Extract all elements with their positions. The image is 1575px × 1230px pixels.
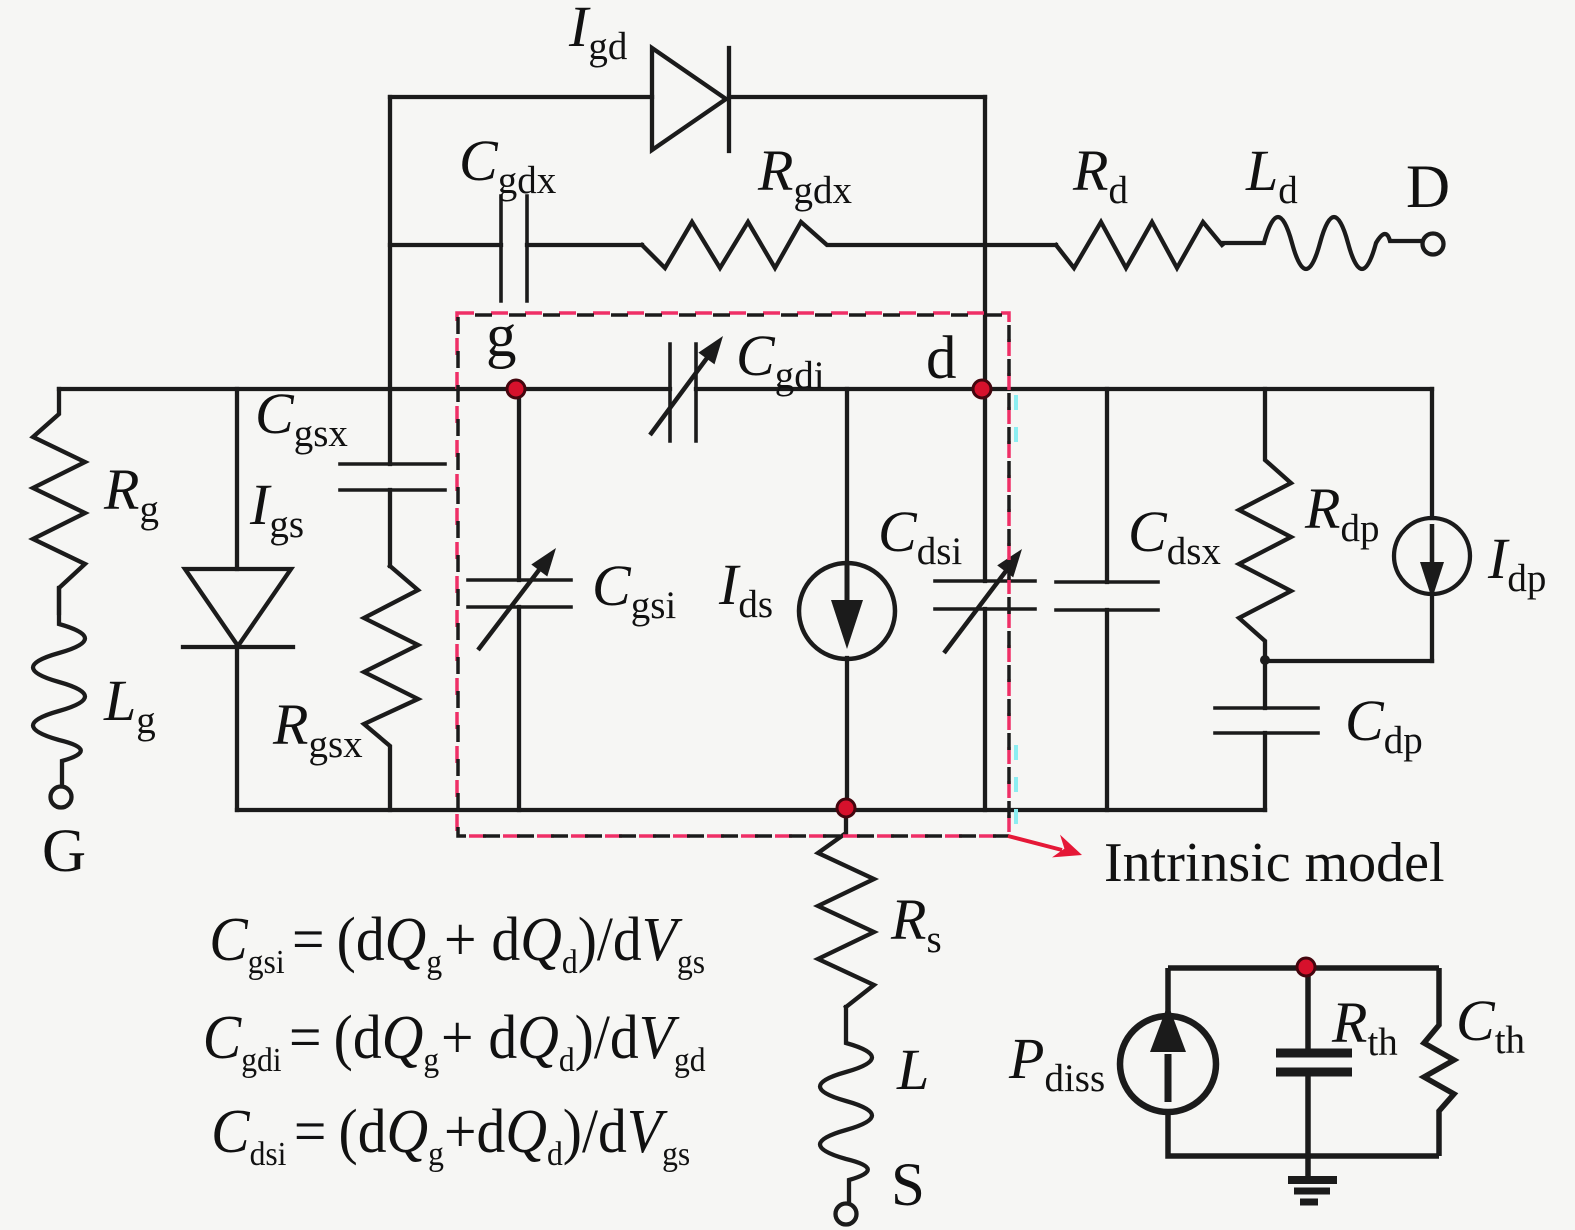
- svg-text:S: S: [891, 1152, 925, 1219]
- svg-text:G: G: [42, 818, 86, 885]
- svg-text:L: L: [896, 1037, 929, 1102]
- svg-text:d: d: [926, 325, 957, 392]
- svg-text:g: g: [486, 303, 517, 370]
- svg-text:Intrinsic model: Intrinsic model: [1104, 832, 1445, 894]
- svg-text:D: D: [1406, 154, 1450, 221]
